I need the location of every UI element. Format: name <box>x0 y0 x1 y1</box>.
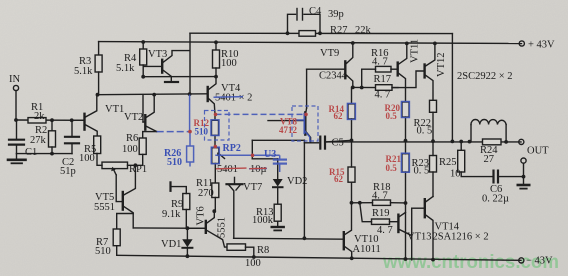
svg-text:0.5: 0.5 <box>386 111 398 121</box>
svg-text:R19: R19 <box>372 208 390 219</box>
svg-text:0. 5: 0. 5 <box>414 166 430 177</box>
svg-text:VD1: VD1 <box>161 239 181 250</box>
svg-text:5551: 5551 <box>94 202 115 213</box>
svg-text:5.1k: 5.1k <box>74 66 93 77</box>
svg-text:5401: 5401 <box>217 164 238 175</box>
svg-text:4. 7: 4. 7 <box>372 191 388 202</box>
svg-text:510: 510 <box>195 127 209 137</box>
svg-text:39p: 39p <box>328 9 344 20</box>
svg-text:4. 7: 4. 7 <box>372 57 388 68</box>
svg-text:RP2: RP2 <box>223 143 241 154</box>
svg-text:VT11: VT11 <box>410 39 421 63</box>
svg-text:C2344: C2344 <box>319 71 348 82</box>
svg-text:100: 100 <box>122 144 138 155</box>
svg-text:U3: U3 <box>264 149 276 160</box>
svg-text:100: 100 <box>221 58 237 69</box>
svg-text:R6: R6 <box>126 133 138 144</box>
svg-text:27k: 27k <box>30 135 47 146</box>
svg-text:0.5: 0.5 <box>386 163 398 173</box>
svg-text:RP1: RP1 <box>129 164 147 175</box>
svg-text:2SC2922 × 2: 2SC2922 × 2 <box>457 71 513 82</box>
svg-text:VT12: VT12 <box>436 53 447 78</box>
svg-text:100: 100 <box>245 258 261 269</box>
svg-text:2SA1216 × 2: 2SA1216 × 2 <box>433 232 489 243</box>
svg-text:4. 7: 4. 7 <box>377 225 393 236</box>
svg-text:4712: 4712 <box>279 125 298 135</box>
svg-text:100: 100 <box>79 153 95 164</box>
svg-text:0. 5: 0. 5 <box>417 126 433 137</box>
svg-text:51p: 51p <box>60 166 76 177</box>
svg-text:R8: R8 <box>257 245 269 256</box>
svg-text:C5: C5 <box>332 138 344 149</box>
svg-text:R27: R27 <box>330 25 348 36</box>
svg-text:100k: 100k <box>252 215 274 226</box>
svg-text:10: 10 <box>450 169 461 180</box>
svg-text:22k: 22k <box>355 25 372 36</box>
svg-text:R17: R17 <box>374 74 392 85</box>
svg-text:+ 43V: + 43V <box>528 40 555 51</box>
svg-text:VT1: VT1 <box>105 104 124 115</box>
svg-text:VD2: VD2 <box>287 176 307 187</box>
svg-text:A1011: A1011 <box>353 244 381 255</box>
svg-text:0. 22µ: 0. 22µ <box>482 194 509 205</box>
svg-text:C4: C4 <box>309 6 322 17</box>
svg-text:62: 62 <box>334 174 344 184</box>
svg-text:10µ: 10µ <box>250 164 267 175</box>
svg-text:− 43V: − 43V <box>526 256 553 267</box>
svg-text:4. 7: 4. 7 <box>375 90 391 101</box>
svg-text:27: 27 <box>484 154 495 165</box>
svg-text:VT13: VT13 <box>407 232 432 243</box>
svg-text:5.1k: 5.1k <box>116 63 135 74</box>
svg-text:2k: 2k <box>34 111 45 122</box>
svg-text:5551: 5551 <box>217 217 228 238</box>
svg-text:IN: IN <box>9 74 20 85</box>
svg-text:OUT: OUT <box>527 146 549 157</box>
svg-text:R25: R25 <box>439 157 457 168</box>
svg-text:9.1k: 9.1k <box>162 209 181 220</box>
svg-text:510: 510 <box>167 157 182 168</box>
svg-text:VT6: VT6 <box>196 206 207 225</box>
svg-text:270: 270 <box>198 188 214 199</box>
svg-text:VT2: VT2 <box>124 112 143 123</box>
svg-text:VT3: VT3 <box>148 49 167 60</box>
svg-text:5401 × 2: 5401 × 2 <box>215 93 252 104</box>
svg-text:VT7: VT7 <box>243 182 262 193</box>
svg-text:62: 62 <box>334 111 344 121</box>
svg-text:VT9: VT9 <box>320 48 339 59</box>
svg-text:C1: C1 <box>25 147 37 158</box>
svg-text:510: 510 <box>95 246 111 257</box>
